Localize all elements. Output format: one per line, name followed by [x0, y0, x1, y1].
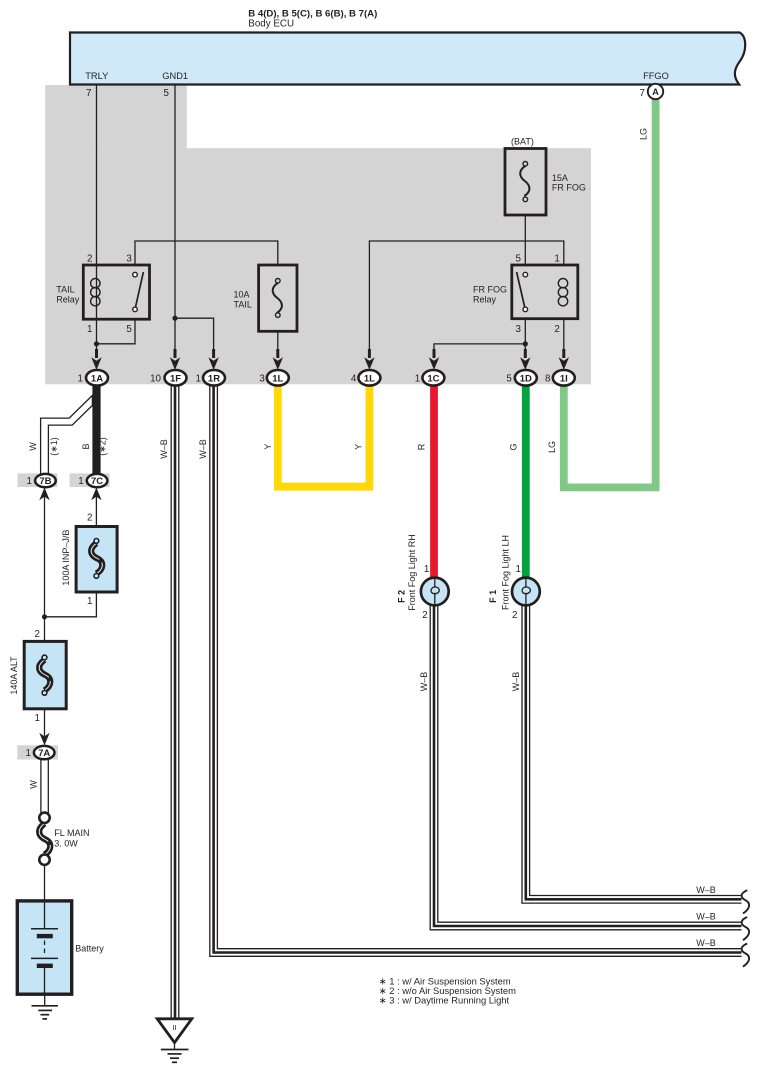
- wire 15A FR FOG fuse to relay pin5: [524, 215, 526, 265]
- svg-text:W–B: W–B: [419, 672, 429, 692]
- relay FR FOG switch: [517, 272, 528, 312]
- svg-text:1: 1: [554, 254, 559, 265]
- svg-text:W–B: W–B: [511, 672, 521, 692]
- svg-text:1: 1: [27, 476, 32, 487]
- wire 7B down to junction with 100A fuse: [44, 495, 46, 617]
- svg-text:5: 5: [126, 324, 132, 335]
- svg-text:Relay: Relay: [473, 295, 497, 305]
- svg-text:7: 7: [86, 88, 91, 99]
- node A circle at FFGO: [648, 84, 663, 99]
- fog light F2 Front Fog Light RH: [421, 578, 449, 606]
- relay TAIL coil: [91, 279, 100, 306]
- shaded junction-block area main: [45, 148, 591, 384]
- svg-text:1: 1: [26, 748, 31, 759]
- svg-text:2: 2: [87, 513, 92, 524]
- junction dot GND1 branch: [172, 316, 177, 321]
- wire TAIL relay pin5 to junction: [97, 319, 136, 344]
- wire W-B triple from 1F down to ground triangle: [171, 385, 179, 1018]
- svg-text:5: 5: [506, 373, 512, 384]
- svg-text:1: 1: [87, 596, 92, 607]
- svg-text:7A: 7A: [38, 748, 50, 759]
- wire TRLY pin7 down through TAIL relay coil to junction: [96, 85, 98, 358]
- svg-text:W–B: W–B: [159, 439, 169, 459]
- svg-text:2: 2: [554, 324, 559, 335]
- svg-text:2: 2: [87, 254, 92, 265]
- connector oval 7B: [27, 474, 56, 487]
- svg-text:7C: 7C: [91, 476, 103, 487]
- svg-text:W–B: W–B: [696, 885, 716, 895]
- wire 140A ALT pin1 down to 7A: [44, 709, 46, 738]
- connector oval 1I: [545, 370, 575, 386]
- svg-text:W: W: [28, 442, 38, 451]
- svg-text:100A INP–J/B: 100A INP–J/B: [61, 530, 71, 586]
- wire 100A fuse pin1 to junction: [45, 592, 97, 617]
- fuse 140A ALT box: [24, 641, 66, 708]
- svg-text:B: B: [81, 443, 91, 449]
- junction dot FR FOG pin3 branch: [523, 341, 528, 346]
- svg-text:15A: 15A: [552, 173, 568, 183]
- svg-text:W: W: [28, 780, 38, 789]
- svg-text:F 1: F 1: [488, 590, 498, 603]
- wire B thick black from 1A to 7C: [92, 378, 100, 477]
- wire FL MAIN to battery: [44, 865, 46, 902]
- junction dot TAIL relay output: [94, 341, 99, 346]
- svg-text:5: 5: [516, 254, 522, 265]
- svg-text:1L: 1L: [272, 373, 283, 384]
- connector oval 1L(4): [351, 370, 381, 386]
- svg-text:1A: 1A: [91, 373, 103, 384]
- fuse 100A INP-J/B element: [91, 539, 102, 579]
- svg-text:1F: 1F: [170, 373, 181, 384]
- wire FR FOG relay pin3 branch to 1C: [434, 344, 525, 358]
- relay FR FOG box: [512, 265, 578, 319]
- svg-text:Battery: Battery: [75, 944, 104, 954]
- fuse 10A TAIL element: [273, 279, 282, 318]
- connector oval 1R: [196, 370, 225, 386]
- wire W-B triple from F1 down and right to frame break: [522, 604, 742, 903]
- svg-text:1D: 1D: [520, 373, 532, 384]
- svg-text:1: 1: [78, 373, 83, 384]
- wire junction down to 140A ALT fuse: [44, 617, 46, 642]
- svg-text:II: II: [172, 1023, 176, 1032]
- wire G from 1D to F1: [522, 378, 530, 579]
- svg-text:1C: 1C: [427, 373, 439, 384]
- connector strip behind 7A: [17, 745, 58, 759]
- svg-text:W–B: W–B: [696, 938, 716, 948]
- svg-text:1: 1: [516, 564, 521, 575]
- svg-text:7B: 7B: [39, 476, 51, 487]
- svg-text:1: 1: [415, 373, 420, 384]
- junction dot 7B/100A fuse: [42, 614, 47, 619]
- svg-text:2: 2: [512, 610, 517, 621]
- relay TAIL switch: [133, 272, 144, 312]
- connector strip behind 7C: [70, 473, 110, 487]
- battery cell symbols: [31, 901, 58, 994]
- svg-text:LG: LG: [547, 441, 557, 453]
- svg-text:1: 1: [424, 564, 429, 575]
- svg-text:3: 3: [126, 254, 132, 265]
- svg-text:(∗2): (∗2): [97, 437, 107, 456]
- svg-text:TAIL: TAIL: [234, 300, 252, 310]
- connector oval 7C: [78, 474, 107, 487]
- break squiggle wire3: [742, 944, 750, 967]
- wire W branch double-line from 1A wire to 7B: [41, 395, 93, 479]
- connector oval 1C: [415, 370, 445, 386]
- svg-text:Body ECU: Body ECU: [248, 19, 294, 30]
- wire 1L(4) up and right to FR FOG relay pin1: [369, 241, 563, 358]
- wire LG from 1I to FFGO circle A: [564, 98, 656, 487]
- arrow into 1A: [91, 349, 101, 370]
- wire FR FOG relay pin3 to 1D: [524, 319, 526, 358]
- svg-text:F 2: F 2: [396, 590, 406, 603]
- wire 7C down to 100A INP-J/B fuse: [95, 492, 97, 527]
- wire Y from 1L(3) to 1L(4): [278, 378, 370, 487]
- ground triangle II for GND1: [157, 1019, 192, 1063]
- fuse 140A ALT element: [39, 655, 50, 695]
- svg-text:(∗1): (∗1): [49, 437, 59, 456]
- connector oval 1A: [78, 370, 108, 386]
- svg-text:(BAT): (BAT): [511, 137, 534, 147]
- svg-text:A: A: [652, 87, 659, 97]
- wire TAIL relay pin3 up right to 10A TAIL fuse: [135, 241, 278, 266]
- arrow up into 7B: [39, 488, 49, 501]
- arrow into 1L(3): [273, 349, 283, 370]
- connector oval 1L(3): [259, 370, 288, 386]
- relay FR FOG coil: [558, 279, 567, 306]
- connector oval 7A: [26, 746, 55, 759]
- shaded junction-block area upper column: [45, 85, 187, 148]
- wire W-B triple from F2 down and right to frame break: [430, 604, 741, 930]
- arrow into 1R: [208, 349, 218, 370]
- wire W-B triple from 1R down and right to frame break: [210, 385, 742, 956]
- fuse 100A INP-J/B box: [76, 527, 117, 593]
- svg-text:W–B: W–B: [198, 439, 208, 459]
- fusible link FL MAIN 3.0W: [39, 813, 50, 865]
- svg-text:3: 3: [259, 373, 265, 384]
- svg-text:10: 10: [150, 373, 161, 384]
- fuse 15A FR FOG box: [505, 149, 546, 216]
- svg-text:Front Fog Light LH: Front Fog Light LH: [500, 535, 510, 610]
- svg-text:1I: 1I: [560, 373, 568, 384]
- svg-text:FFGO: FFGO: [643, 71, 669, 81]
- arrow into 1C: [429, 349, 439, 370]
- svg-text:TRLY: TRLY: [85, 71, 108, 81]
- svg-text:∗ 3 : w/ Daytime Running Light: ∗ 3 : w/ Daytime Running Light: [379, 995, 510, 1006]
- Body ECU banner box with torn right edge: [70, 33, 745, 85]
- svg-text:1R: 1R: [208, 373, 220, 384]
- fuse 15A FR FOG element: [520, 162, 529, 202]
- svg-text:Relay: Relay: [56, 295, 80, 305]
- svg-text:10A: 10A: [234, 290, 250, 300]
- svg-text:3: 3: [516, 324, 522, 335]
- connector oval 1F: [150, 370, 186, 386]
- arrow into 1D: [520, 349, 530, 370]
- svg-text:1: 1: [78, 476, 83, 487]
- svg-text:Front Fog Light RH: Front Fog Light RH: [407, 534, 417, 611]
- svg-text:4: 4: [351, 373, 357, 384]
- svg-text:2: 2: [35, 629, 40, 640]
- ground below battery: [32, 994, 58, 1019]
- svg-text:R: R: [416, 443, 426, 450]
- break squiggle wire2: [742, 917, 750, 940]
- svg-text:LG: LG: [639, 128, 649, 140]
- svg-text:1: 1: [87, 324, 92, 335]
- arrow into 1L(4): [364, 349, 374, 370]
- wire W double-line from 7A to FL MAIN: [41, 759, 48, 813]
- svg-text:Y: Y: [354, 444, 364, 450]
- fog light F1 Front Fog Light LH: [512, 578, 540, 606]
- arrow up into 7C: [91, 488, 101, 501]
- arrow into 1F: [170, 349, 180, 370]
- svg-text:5: 5: [164, 88, 170, 99]
- wire GND1 branch to 1R: [175, 318, 214, 358]
- svg-text:8: 8: [545, 373, 551, 384]
- svg-text:FR FOG: FR FOG: [473, 285, 507, 295]
- wire FR FOG relay pin2 to 1I: [563, 319, 565, 358]
- svg-text:W–B: W–B: [696, 912, 716, 922]
- connector oval 1D: [506, 370, 536, 386]
- svg-text:FL MAIN: FL MAIN: [54, 828, 89, 838]
- svg-text:2: 2: [422, 610, 427, 621]
- fuse 10A TAIL box: [259, 265, 297, 331]
- svg-text:GND1: GND1: [162, 71, 188, 81]
- svg-text:FR FOG: FR FOG: [552, 183, 586, 193]
- svg-text:G: G: [509, 443, 519, 450]
- battery box: [17, 901, 71, 994]
- relay TAIL box: [83, 265, 149, 319]
- wire GND1 pin5 down to 1F: [174, 85, 176, 358]
- svg-text:3. 0W: 3. 0W: [54, 839, 78, 849]
- break squiggle wire1: [742, 890, 750, 913]
- svg-text:TAIL: TAIL: [56, 285, 74, 295]
- wire 10A TAIL fuse to 1L(3): [277, 331, 279, 358]
- connector strip behind 7B: [18, 473, 58, 487]
- arrow down into 7A: [39, 733, 49, 746]
- svg-text:1: 1: [196, 373, 201, 384]
- svg-text:140A ALT: 140A ALT: [9, 656, 19, 695]
- arrow into 1I: [559, 349, 569, 370]
- wire R from 1C to F2: [430, 378, 438, 579]
- svg-text:Y: Y: [263, 444, 273, 450]
- svg-text:1: 1: [35, 713, 40, 724]
- svg-text:7: 7: [640, 88, 645, 99]
- svg-text:1L: 1L: [364, 373, 375, 384]
